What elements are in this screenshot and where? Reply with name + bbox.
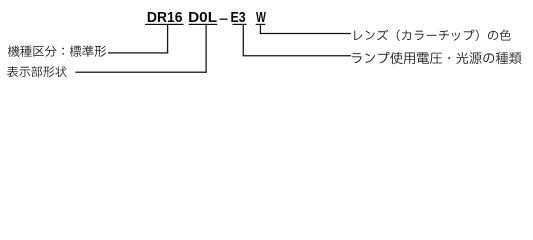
wire: vertical drop from E3: [243, 25, 244, 56]
wire: horizontal to label レンズ色: [260, 33, 351, 34]
wire: horizontal to label 機種区分: [108, 52, 168, 53]
svg-text:D0L: D0L: [188, 10, 217, 26]
wire: vertical drop from D0L: [205, 25, 206, 73]
wire: horizontal to label ランプ電圧: [243, 55, 351, 56]
svg-text:E3: E3: [231, 10, 246, 26]
dash separator in part number: [220, 19, 228, 20]
label 表示部形状 (display shape): [7, 66, 66, 77]
label ランプ使用電圧・光源の種類 (lamp voltage / light source): [352, 52, 522, 64]
underline under E3: [233, 24, 247, 25]
svg-text:DR16: DR16: [147, 10, 183, 26]
label レンズ（カラーチップ）の色 (lens color): [354, 30, 510, 41]
underline under D0L: [189, 24, 218, 25]
underline under W: [256, 24, 266, 25]
svg-text:W: W: [256, 10, 266, 26]
label 機種区分：標準形 (model class: standard): [8, 46, 106, 57]
underline under DR16: [145, 24, 184, 25]
wire: vertical drop from DR16: [167, 25, 168, 53]
wire: vertical drop from W: [260, 25, 261, 34]
wire: horizontal to label 表示部形状: [75, 72, 206, 73]
